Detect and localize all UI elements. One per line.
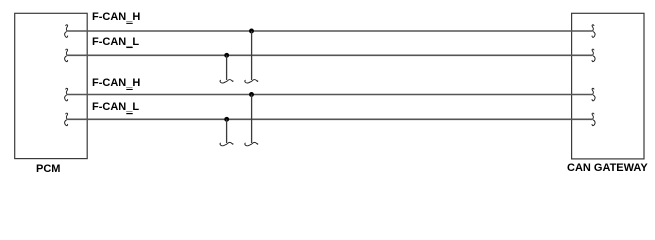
left break squiggle wire 2: [65, 49, 68, 62]
stub 2 end squiggle: [220, 80, 233, 83]
stub from wire 1: [251, 31, 253, 80]
left break squiggle wire 1: [65, 25, 68, 38]
left break squiggle wire 3: [65, 88, 68, 101]
junction dot wire 3: [249, 92, 254, 97]
right break squiggle wire 3: [592, 88, 595, 101]
component label PCM: [36, 163, 60, 175]
stub from wire 3: [251, 95, 253, 144]
right break squiggle wire 2: [592, 49, 595, 62]
underscore of label F-CAN_L (4): [126, 113, 132, 114]
left break squiggle wire 4: [65, 113, 68, 126]
underscore of label F-CAN_H (3): [126, 89, 132, 90]
PCM box: [15, 13, 88, 158]
net label F-CAN_H (wire 3): [92, 77, 140, 89]
junction dot wire 1: [249, 29, 254, 34]
wire F-CAN_H (2): [67, 94, 592, 96]
right break squiggle wire 4: [592, 113, 595, 126]
component label CAN GATEWAY: [567, 162, 648, 174]
junction dot wire 2: [224, 53, 229, 58]
stub 1 end squiggle: [245, 80, 258, 83]
stub 3 end squiggle: [245, 142, 258, 145]
net label F-CAN_L (wire 2): [92, 36, 139, 48]
CAN GATEWAY box: [572, 13, 644, 159]
underscore of label F-CAN_L (2): [126, 47, 132, 48]
junction dot wire 4: [224, 117, 229, 122]
net label F-CAN_H (wire 1): [92, 11, 140, 23]
stub from wire 2: [226, 55, 228, 80]
right break squiggle wire 1: [592, 25, 595, 38]
wire F-CAN_H (1): [67, 30, 592, 32]
underscore of label F-CAN_H (1): [126, 23, 132, 24]
stub 4 end squiggle: [220, 142, 233, 145]
stub from wire 4: [226, 119, 228, 143]
wire F-CAN_L (1): [67, 54, 592, 56]
wire F-CAN_L (2): [67, 118, 592, 120]
net label F-CAN_L (wire 4): [92, 101, 139, 113]
